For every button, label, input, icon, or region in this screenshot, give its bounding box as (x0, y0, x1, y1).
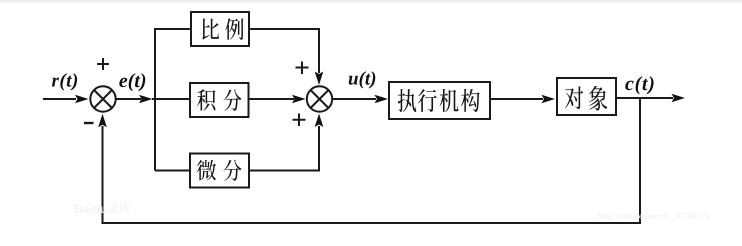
watermark left (faint) (74, 202, 131, 216)
plus sign at S2 top input (296, 62, 309, 75)
wire: feedback path from output branch to S1 (103, 98, 641, 223)
node label r(t) (52, 73, 77, 90)
wire: branch to derivative input (155, 170, 190, 172)
wire: branch vertical (splits to P, I, D) (155, 29, 191, 171)
block: 微分 (derivative) (190, 154, 249, 188)
wire: integral output to S2 (249, 98, 295, 100)
node label e(t) (119, 73, 145, 91)
wire: branch node to integral block (152, 98, 190, 100)
block: 执行机构 (actuator) (389, 82, 490, 119)
wire: u(t) from S2 to actuator (332, 98, 376, 100)
top border strip (0, 0, 742, 3)
plus sign at S2 bottom input (293, 114, 306, 127)
block: 比例 (proportional) (191, 12, 249, 46)
svg-text:blog.csdn.net/weixin_30748879: blog.csdn.net/weixin_30748879 (598, 212, 711, 221)
wire: e(t) from S1 to branch node (116, 98, 141, 100)
minus sign at S1 bottom input (84, 122, 94, 124)
wire: output c(t) (616, 97, 673, 99)
wire: derivative output to S2 bottom (249, 126, 319, 171)
wire: proportional output to S2 top (249, 29, 319, 73)
svg-text:Baidu: Baidu (74, 202, 107, 216)
plus sign at S1 top input (97, 58, 109, 70)
node label u(t) (349, 71, 376, 88)
block: 积分 (integral) (190, 83, 249, 117)
wire: input r(t) (43, 98, 76, 100)
node label c(t) (625, 76, 653, 94)
block: 对象 (plant) (557, 78, 616, 115)
wire: actuator output to plant (490, 98, 543, 100)
summing junction S1 (comparator) (90, 86, 115, 111)
summing junction S2 (adder) (307, 86, 332, 111)
